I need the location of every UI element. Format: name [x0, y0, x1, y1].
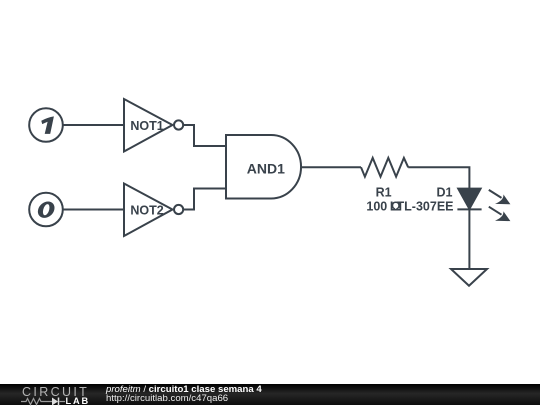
LAB text — [66, 397, 91, 406]
label digit 0 — [36, 202, 56, 218]
svg-text:R1: R1 — [376, 186, 392, 200]
logo resistor-diode glyph — [21, 396, 91, 406]
input flag "0" — [29, 193, 63, 227]
svg-text:NOT1: NOT1 — [130, 119, 163, 133]
LED D1 cathode bar — [457, 208, 481, 210]
wire AND1 output to resistor — [301, 166, 361, 168]
resistor R1 — [361, 158, 408, 177]
LED light arrow 2 — [489, 207, 511, 221]
svg-text:NOT2: NOT2 — [130, 203, 163, 217]
wire NOT1 to AND1 upper input — [183, 125, 226, 146]
wire flag1 to NOT1 — [63, 124, 124, 126]
LED D1 triangle — [458, 189, 480, 209]
wire LED to ground — [468, 209, 470, 269]
AND gate AND1 body — [226, 135, 301, 199]
ground symbol — [451, 269, 487, 286]
inverter NOT1 — [124, 99, 173, 152]
svg-text:LTL-307EE: LTL-307EE — [390, 200, 454, 214]
footer bar — [0, 384, 540, 406]
CircuitLab wordmark — [22, 386, 89, 399]
wire flag0 to NOT2 — [63, 209, 124, 211]
NOT2 output bubble — [174, 205, 183, 214]
input flag "1" — [29, 108, 63, 142]
inverter NOT2 — [124, 184, 173, 237]
NOT1 output bubble — [174, 120, 183, 129]
label digit 1 — [41, 116, 54, 133]
svg-text:D1: D1 — [437, 186, 453, 200]
wire NOT2 to AND1 lower input — [183, 189, 226, 210]
svg-text:AND1: AND1 — [247, 160, 285, 176]
wire resistor to LED corner — [408, 167, 469, 189]
attribution text — [106, 385, 262, 404]
LED light arrow 1 — [489, 190, 511, 204]
